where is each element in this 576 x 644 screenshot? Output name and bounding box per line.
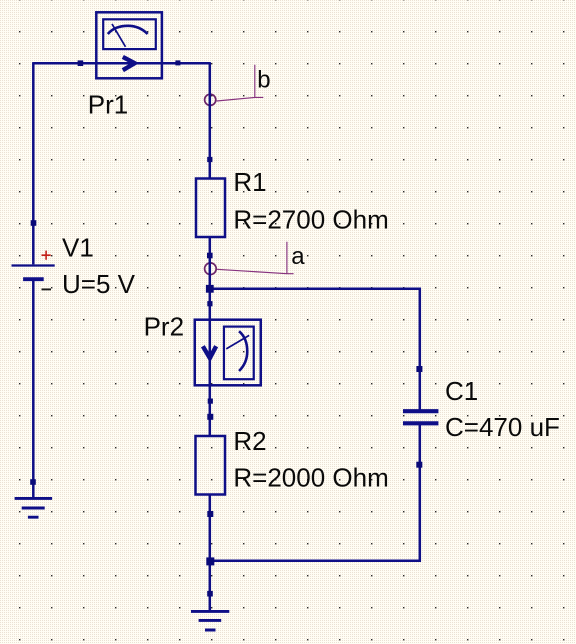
junction on top wire left [78,60,84,66]
svg-text:R1: R1 [233,167,266,197]
wire right vertical upper [209,62,212,178]
wire left down to battery [32,62,35,264]
battery plus sign [42,251,51,260]
wire R1 to R2 [209,237,212,436]
junction above Pr2 [207,301,212,306]
svg-text:U=5 V: U=5 V [62,269,136,299]
svg-text:C1: C1 [445,376,478,406]
ground (bottom, below R2) [191,611,229,630]
wire battery to left ground [32,279,35,498]
node a [205,263,217,275]
junction above left ground [30,479,36,485]
junction on left wire [31,220,37,226]
svg-text:R2: R2 [233,426,266,456]
svg-text:R=2700 Ohm: R=2700 Ohm [233,205,388,235]
battery minus sign [42,288,52,290]
ground (left, below V1) [15,498,53,517]
wire branch right [210,289,421,562]
resistor R1 [196,179,225,238]
junction below R2 [207,511,213,517]
svg-text:V1: V1 [62,233,94,263]
svg-text:R=2000 Ohm: R=2000 Ohm [233,463,388,493]
ammeter Pr1 [96,12,162,78]
junction bottom T [206,557,214,565]
wire R2 to ground [209,495,212,611]
wire junction squares [30,60,422,596]
junction above R2 [207,414,213,420]
junction above bottom ground [207,591,213,597]
junction below Pr2 [208,399,213,404]
svg-text:Pr2: Pr2 [144,311,184,341]
svg-text:Pr1: Pr1 [88,89,128,119]
resistor R2 [196,436,226,495]
label line b [217,65,264,101]
junction node a branch [206,285,214,293]
junction above R1 [207,157,212,162]
battery V1 plates [12,264,55,266]
junction below C1 [416,462,422,468]
label line a [217,242,294,274]
junction below R1 [207,253,213,259]
junction above C1 [416,366,422,372]
svg-text:b: b [257,67,270,94]
junction on top wire right [175,60,180,65]
svg-text:a: a [291,243,305,270]
wire top [33,62,210,65]
svg-text:C=470 uF: C=470 uF [445,412,560,442]
ammeter Pr2 (rotated 90 CW) [195,320,261,386]
capacitor C1 plates [403,409,438,413]
node b [205,94,216,105]
